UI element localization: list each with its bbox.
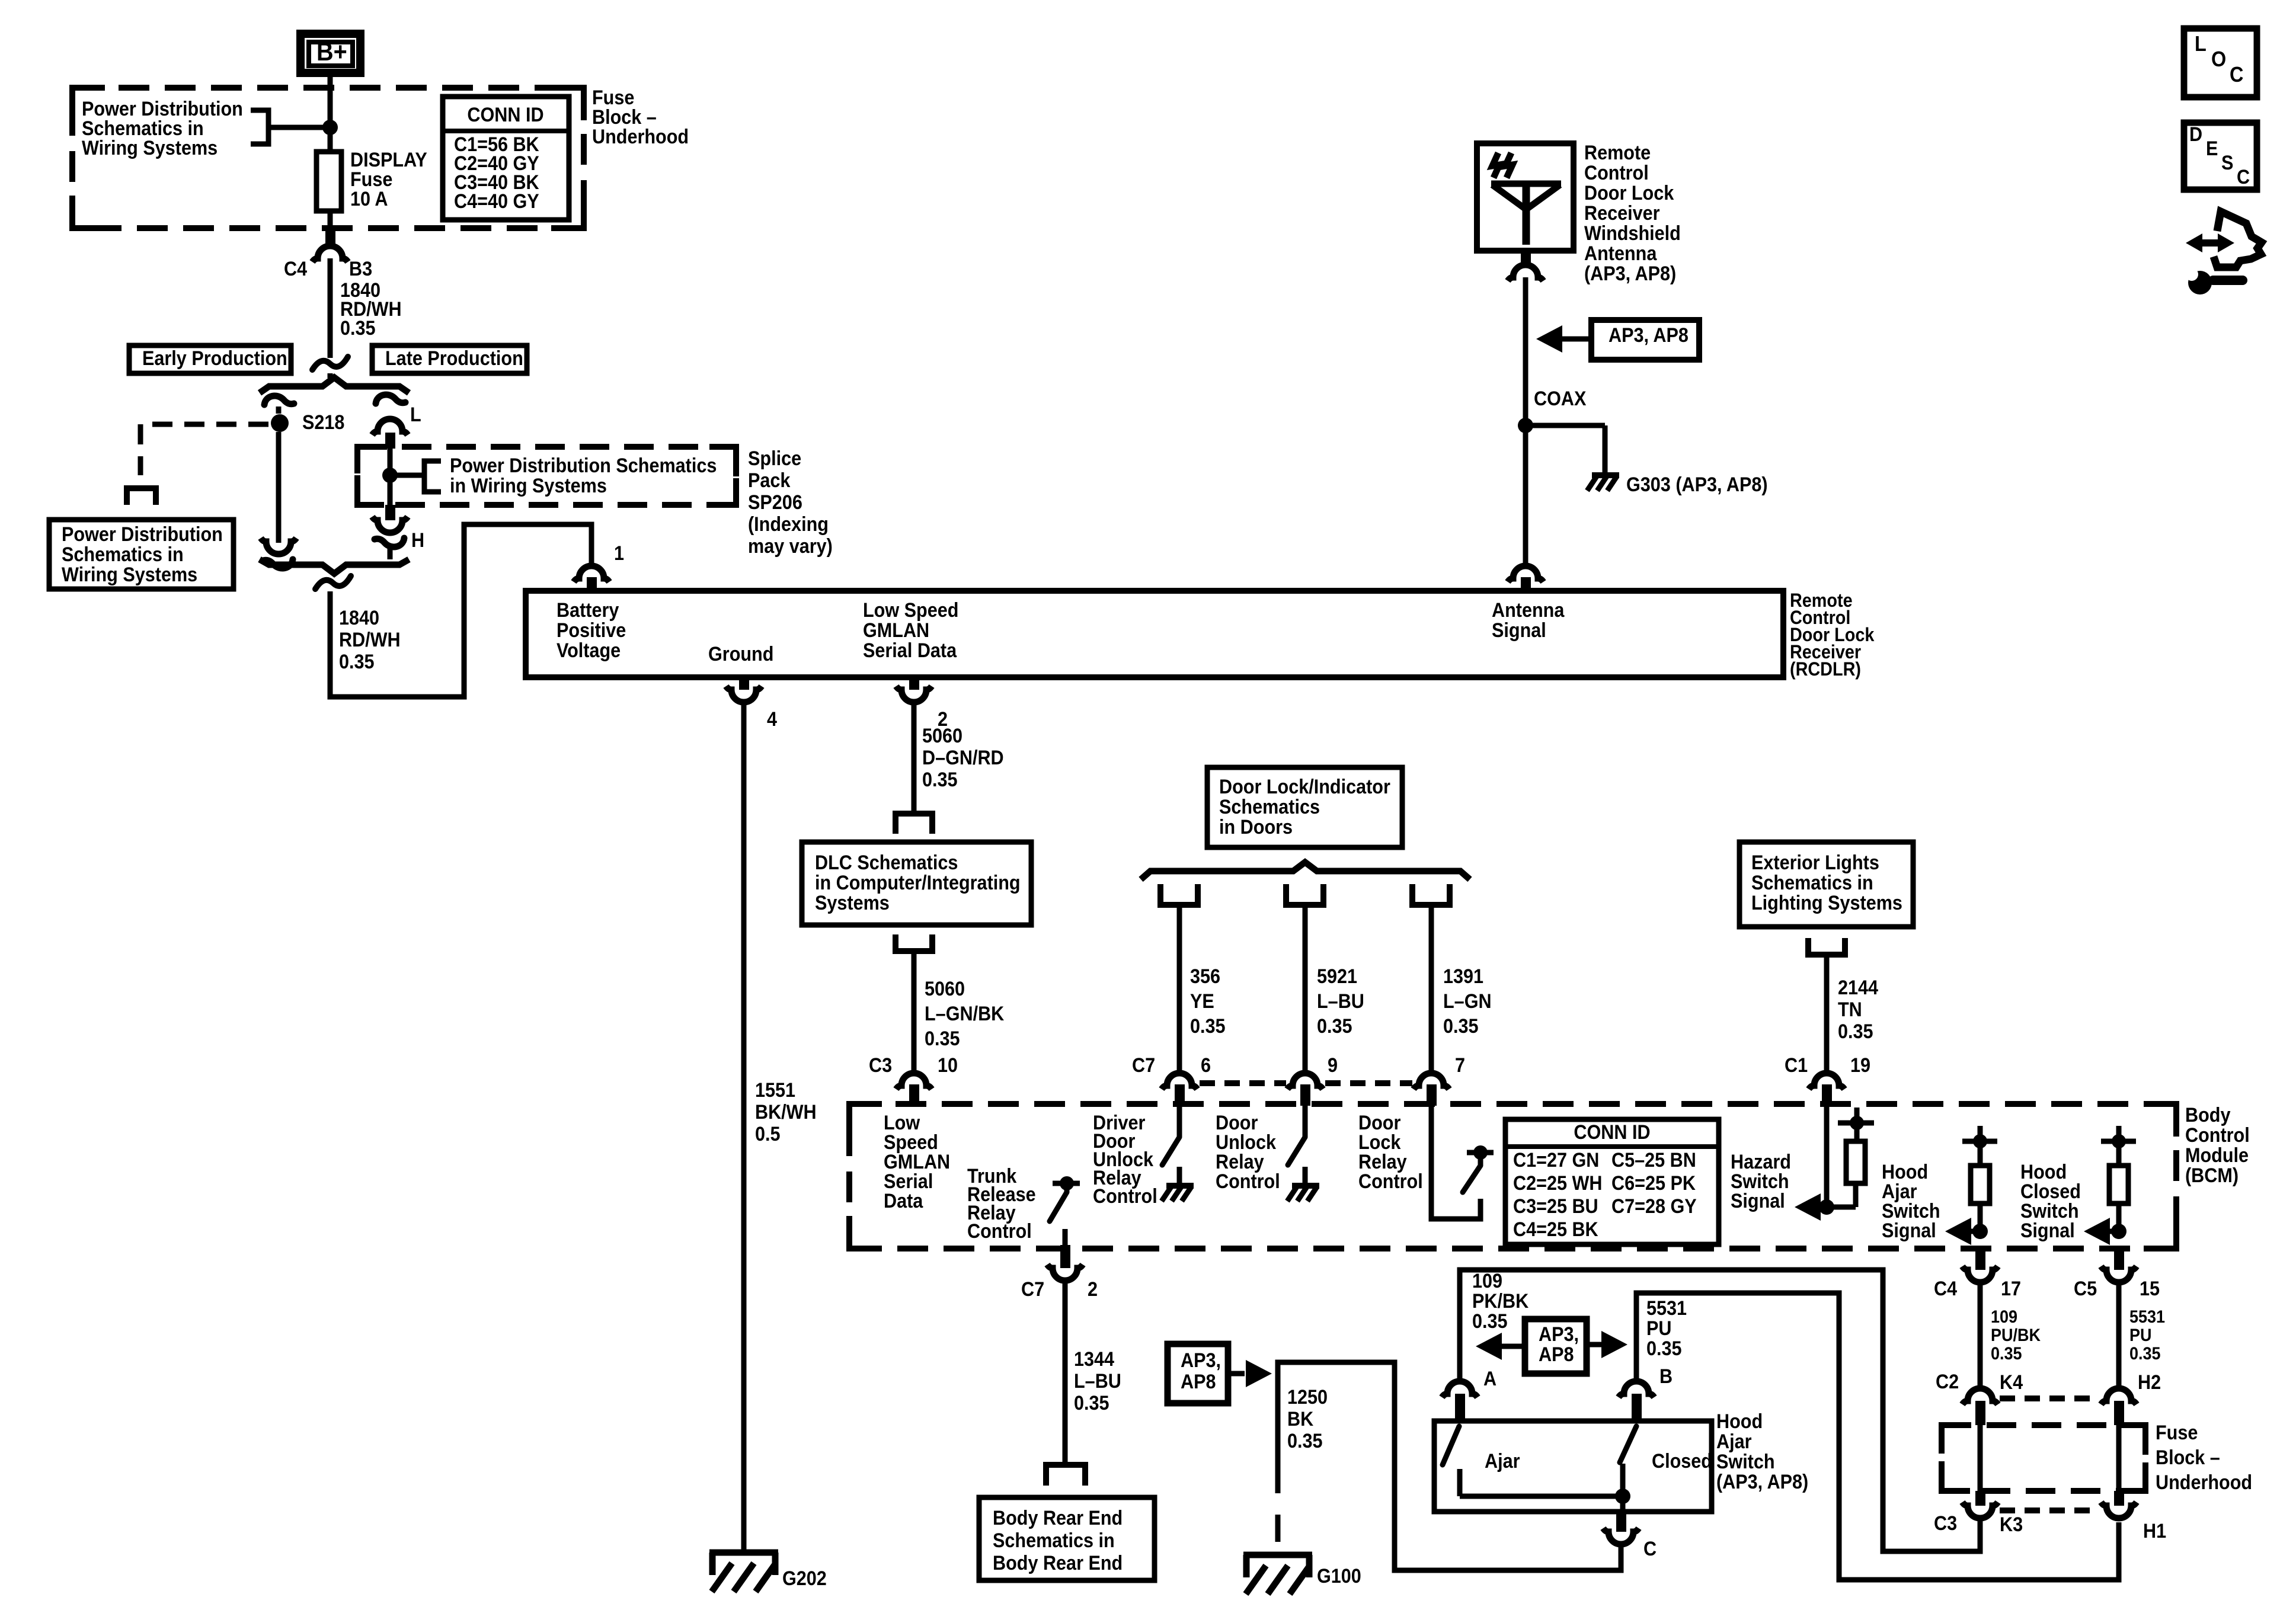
svg-text:C: C (2230, 63, 2243, 87)
wire through splice (388, 449, 393, 505)
svg-text:S218: S218 (302, 411, 344, 434)
wire branch 2 (1303, 905, 1308, 1074)
coax junction dot (1518, 418, 1533, 433)
label C3 (pin10) (869, 1054, 892, 1077)
label wire 1840 RD/WH 0.35 (upper) (340, 279, 402, 340)
svg-text:Early Production: Early Production (142, 347, 287, 370)
connector H1 (2101, 1491, 2137, 1518)
svg-text:(BCM): (BCM) (2185, 1164, 2239, 1187)
svg-text:in Computer/Integrating: in Computer/Integrating (815, 872, 1021, 894)
driver door unlock relay switch (1162, 1106, 1179, 1165)
label A (1483, 1368, 1496, 1390)
svg-text:0.35: 0.35 (1472, 1310, 1508, 1333)
box Late Production (372, 345, 527, 373)
label 17 (2001, 1278, 2021, 1300)
svg-text:Body: Body (2185, 1104, 2230, 1126)
label wire 5531 PU 0.35 (B) (1646, 1297, 1687, 1360)
svg-text:Underhood: Underhood (2156, 1471, 2252, 1494)
svg-text:Control: Control (1358, 1170, 1423, 1193)
svg-text:C5–25 BN: C5–25 BN (1611, 1149, 1696, 1172)
label C1 (pin19) (1785, 1054, 1808, 1077)
antenna box (1477, 143, 1574, 251)
connector pin 9 on BCM (1287, 1073, 1323, 1106)
svg-text:Control: Control (1584, 162, 1649, 184)
door unlock ground (1287, 1167, 1319, 1201)
connector C (1603, 1512, 1639, 1544)
break squiggle lower (315, 576, 351, 589)
svg-text:B: B (1659, 1365, 1673, 1388)
label K3 (2000, 1513, 2023, 1536)
label DISPLAY Fuse 10 A (350, 149, 427, 210)
connector C1/19 on BCM (1809, 1073, 1844, 1106)
svg-text:17: 17 (2001, 1278, 2021, 1300)
label wire 2144 TN 0.35 (1838, 977, 1878, 1043)
svg-text:C6=25 PK: C6=25 PK (1611, 1172, 1696, 1195)
label H2 (2138, 1371, 2161, 1394)
svg-text:Antenna: Antenna (1584, 242, 1657, 265)
hazard wire (1824, 1106, 1830, 1207)
svg-text:15: 15 (2140, 1278, 2160, 1300)
svg-text:10 A: 10 A (350, 188, 388, 210)
svg-text:AP3,: AP3, (1539, 1323, 1579, 1346)
svg-text:Exterior Lights: Exterior Lights (1751, 852, 1879, 874)
label Hood Ajar Switch Signal (1882, 1161, 1940, 1242)
svg-text:356: 356 (1190, 965, 1220, 988)
label wire 5531 PU 0.35 (H) (2129, 1307, 2165, 1364)
label pin 4 (767, 708, 777, 731)
connector C7/6 on BCM (1162, 1073, 1197, 1106)
svg-text:9: 9 (1328, 1054, 1338, 1077)
svg-text:BK: BK (1287, 1408, 1314, 1430)
label C4 (pin17) (1934, 1278, 1957, 1300)
hood ajar junction (1970, 1224, 1988, 1239)
bracket branch 1 (1160, 884, 1198, 905)
label pin 2 (938, 708, 948, 731)
svg-text:Systems: Systems (815, 892, 890, 914)
svg-text:Lighting Systems: Lighting Systems (1751, 892, 1902, 914)
svg-text:S: S (2221, 152, 2233, 174)
closed switch blade (1620, 1426, 1636, 1462)
svg-text:4: 4 (767, 708, 777, 731)
wire 1344 to body rear end (1063, 1283, 1068, 1464)
svg-text:C2=25 WH: C2=25 WH (1513, 1172, 1602, 1195)
connector C3/K3 (1962, 1491, 1998, 1518)
svg-text:Signal: Signal (1882, 1219, 1936, 1242)
svg-text:6: 6 (1201, 1054, 1211, 1077)
svg-text:D–GN/RD: D–GN/RD (922, 747, 1004, 769)
svg-text:G100: G100 (1317, 1565, 1361, 1587)
connector C4/B3 (312, 246, 348, 262)
svg-text:Wiring Systems: Wiring Systems (62, 564, 197, 586)
svg-text:1840: 1840 (339, 607, 379, 629)
connector pin 7 on BCM (1414, 1073, 1449, 1106)
svg-text:19: 19 (1850, 1054, 1870, 1077)
svg-text:0.35: 0.35 (1317, 1015, 1352, 1038)
svg-text:C: C (1643, 1538, 1657, 1560)
label Hood Ajar Switch (AP3, AP8) (1716, 1410, 1808, 1493)
brace door branches (1141, 862, 1470, 879)
label Power Distribution Schematics in Wiring Systems (splice) (450, 454, 717, 497)
hood closed pullup resistor (2101, 1126, 2136, 1231)
dashed wire 1250 to G100 (1275, 1466, 1281, 1554)
label C5 (pin15) (2074, 1278, 2097, 1300)
svg-text:1344: 1344 (1074, 1348, 1114, 1371)
coax wire down (1523, 277, 1528, 564)
svg-text:0.35: 0.35 (1287, 1430, 1323, 1452)
svg-text:PU: PU (1646, 1317, 1671, 1340)
svg-text:(AP3, AP8): (AP3, AP8) (1584, 263, 1676, 285)
svg-text:RD/WH: RD/WH (339, 629, 401, 651)
svg-text:0.35: 0.35 (1838, 1020, 1873, 1043)
svg-text:0.35: 0.35 (1991, 1344, 2022, 1364)
label Door Unlock Relay Control (1216, 1112, 1280, 1193)
break squiggle upper (312, 357, 348, 370)
arrow AP3AP8 to 1250 (1228, 1360, 1272, 1387)
box AP3 AP8 (g100) (1168, 1344, 1228, 1403)
ground G303 (1587, 475, 1619, 491)
svg-text:Signal: Signal (2020, 1219, 2075, 1242)
power symbol B+ (300, 34, 360, 73)
arrow AP3AP8 right (1587, 1331, 1627, 1358)
svg-text:PU: PU (2129, 1326, 2151, 1346)
svg-text:AP8: AP8 (1539, 1343, 1574, 1366)
svg-text:Body Rear End: Body Rear End (993, 1507, 1123, 1529)
label 1551 BK/WH 0.5 (755, 1079, 817, 1145)
svg-text:TN: TN (1838, 998, 1862, 1021)
label Ground (708, 643, 773, 665)
pin antenna connector (1508, 566, 1543, 591)
connector pair H (372, 517, 408, 547)
svg-text:(AP3, AP8): (AP3, AP8) (1716, 1471, 1808, 1493)
bracket below DLC box (896, 934, 932, 951)
trunk C7/2 connector (1047, 1245, 1083, 1281)
svg-text:Power Distribution Schematics: Power Distribution Schematics (450, 454, 717, 477)
fuse block underhood dashed box (bottom) (1942, 1425, 2145, 1491)
dotted link C7 pins (1200, 1080, 1412, 1086)
svg-text:AP3,: AP3, (1181, 1349, 1221, 1372)
svg-text:0.35: 0.35 (925, 1028, 960, 1050)
label Hazard Switch Signal (1731, 1151, 1791, 1212)
svg-text:5060: 5060 (925, 978, 965, 1000)
svg-text:Windshield: Windshield (1584, 222, 1681, 245)
wire pin2 to bracket (912, 705, 917, 813)
hood ajar switch box (1434, 1421, 1712, 1512)
label pin 1 (614, 542, 624, 565)
label Low Speed GMLAN Serial Data (BCM) (884, 1112, 950, 1212)
label 10 (938, 1054, 958, 1077)
label 15 (2140, 1278, 2160, 1300)
wire C4 to C2 (1978, 1285, 1983, 1387)
label wire 1840 RD/WH 0.35 (lower) (339, 607, 401, 673)
wire B3 down (328, 258, 333, 358)
svg-text:L: L (2195, 32, 2207, 56)
svg-text:0.35: 0.35 (1646, 1337, 1682, 1360)
svg-text:DLC Schematics: DLC Schematics (815, 852, 958, 874)
label Ajar (1485, 1450, 1520, 1473)
svg-text:E: E (2206, 137, 2218, 160)
svg-text:C5: C5 (2074, 1278, 2097, 1300)
box AP3 AP8 (antenna) (1591, 320, 1699, 360)
antenna box pin connector (1508, 251, 1543, 281)
svg-text:C7=28 GY: C7=28 GY (1611, 1195, 1697, 1218)
label Fuse Block - Underhood (bottom) (2156, 1422, 2252, 1494)
wire S218 down (276, 432, 282, 543)
svg-text:C7: C7 (1132, 1054, 1155, 1077)
body rear end box (979, 1497, 1155, 1580)
wire node to fuse (328, 127, 333, 152)
dashed wire S218 to left (140, 424, 268, 475)
svg-text:H2: H2 (2138, 1371, 2161, 1394)
bracket splice text (424, 461, 441, 492)
box Early Production (129, 345, 291, 373)
wire DLC to C3 pin (912, 951, 917, 1074)
svg-text:0.35: 0.35 (2129, 1344, 2161, 1364)
svg-text:5060: 5060 (922, 725, 962, 747)
label G202 (782, 1567, 827, 1590)
splice S218 (271, 414, 289, 432)
exterior lights box (1739, 842, 1913, 927)
fuse DISPLAY 10A (316, 152, 341, 211)
svg-text:Schematics in: Schematics in (993, 1529, 1115, 1552)
svg-text:7: 7 (1455, 1054, 1465, 1077)
label wire 5060 L-GN/BK 0.35 (925, 978, 1005, 1050)
svg-text:O: O (2211, 47, 2226, 71)
svg-text:C: C (2237, 166, 2250, 188)
connector C4/17 (1962, 1249, 1998, 1282)
label B3 (349, 258, 372, 280)
hazard arrow (1795, 1193, 1821, 1221)
svg-text:0.35: 0.35 (1443, 1015, 1479, 1038)
bracket above DLC box (896, 814, 932, 834)
wire C to 1250 BK (1278, 1362, 1621, 1570)
svg-text:10: 10 (938, 1054, 958, 1077)
svg-text:1250: 1250 (1287, 1386, 1328, 1409)
label 2 (trunk) (1088, 1278, 1098, 1301)
driver unlock ground (1162, 1167, 1194, 1201)
label C7 (pin6) (1132, 1054, 1155, 1077)
svg-text:0.35: 0.35 (1074, 1392, 1109, 1414)
label Door Lock Relay Control (1358, 1112, 1423, 1193)
label 19 (1850, 1054, 1870, 1077)
dotted link K3-H1 (2000, 1507, 2099, 1513)
svg-text:PU/BK: PU/BK (1991, 1326, 2041, 1346)
svg-text:0.35: 0.35 (922, 769, 958, 791)
svg-text:BK/WH: BK/WH (755, 1101, 817, 1124)
svg-text:Signal: Signal (1731, 1190, 1785, 1212)
fuse block underhood dashed box (top) (72, 88, 584, 228)
label 9 (1328, 1054, 1338, 1077)
label Driver Door Unlock Relay Control (1093, 1112, 1157, 1208)
svg-text:C1: C1 (1785, 1054, 1808, 1077)
svg-text:(Indexing: (Indexing (748, 513, 829, 536)
svg-text:Voltage: Voltage (557, 639, 621, 662)
svg-text:Ajar: Ajar (1485, 1450, 1520, 1473)
conn id table (fuse block) (443, 97, 569, 220)
svg-text:L–BU: L–BU (1074, 1370, 1121, 1393)
arrow AP3 AP8 to coax (1536, 325, 1593, 353)
wire H to merge brace (388, 545, 393, 559)
svg-text:109: 109 (1991, 1307, 2017, 1327)
svg-text:Block –: Block – (2156, 1446, 2220, 1469)
stub splice box to H (385, 505, 395, 520)
bracket to wiring systems text (251, 110, 268, 144)
label Closed (1652, 1450, 1712, 1473)
connector C2/K4 (1962, 1388, 1998, 1425)
svg-text:Control: Control (2185, 1124, 2250, 1147)
ajar switch blade (1443, 1426, 1459, 1465)
svg-text:Signal: Signal (1492, 619, 1546, 642)
splice junction dot (382, 468, 398, 483)
wire B+ to fuse (328, 77, 333, 127)
svg-text:L–BU: L–BU (1317, 990, 1364, 1013)
label Low Speed GMLAN Serial Data (863, 599, 958, 662)
label wire 1344 L-BU 0.35 (1074, 1348, 1121, 1414)
label C4 (284, 258, 307, 280)
hood closed junction (2109, 1224, 2126, 1239)
label wire 5060 D-GN/RD 0.35 (922, 725, 1004, 791)
label H (411, 529, 424, 552)
svg-text:C4: C4 (284, 258, 307, 280)
svg-text:C3: C3 (1934, 1512, 1957, 1535)
wire B up and over to H1 (1636, 1293, 2119, 1580)
svg-text:D: D (2189, 123, 2202, 146)
wire exterior lights to C1 (1824, 955, 1830, 1074)
door unlock relay switch (1288, 1106, 1305, 1165)
svg-text:C4=25 BK: C4=25 BK (1513, 1218, 1598, 1241)
svg-text:in Doors: in Doors (1219, 816, 1293, 838)
node junction on B+ wire (322, 120, 338, 135)
connector pair late branch L (372, 395, 408, 435)
svg-text:B3: B3 (349, 258, 372, 280)
svg-text:C2: C2 (1936, 1371, 1959, 1393)
label Battery Positive Voltage (557, 599, 626, 662)
hazard junction (1819, 1199, 1856, 1215)
svg-text:C3: C3 (869, 1054, 892, 1077)
svg-text:Control: Control (967, 1220, 1032, 1243)
label COAX (1534, 388, 1587, 410)
hazard pullup resistor (1838, 1108, 1874, 1207)
label H1 (2143, 1520, 2166, 1542)
wire branch 3 (1429, 905, 1434, 1074)
svg-text:Closed: Closed (1652, 1450, 1712, 1473)
label B (1659, 1365, 1673, 1388)
svg-text:109: 109 (1472, 1270, 1502, 1292)
svg-text:G202: G202 (782, 1567, 827, 1590)
label L (410, 404, 421, 426)
svg-text:L–GN/BK: L–GN/BK (925, 1003, 1005, 1025)
label wire 356 YE 0.35 (1190, 965, 1226, 1038)
svg-text:K4: K4 (2000, 1371, 2023, 1394)
svg-text:Module: Module (2185, 1144, 2249, 1167)
trunk release relay switch (1050, 1176, 1080, 1245)
svg-text:C7: C7 (1021, 1278, 1044, 1301)
dotted link C2-H2 (2000, 1395, 2099, 1401)
label K4 (2000, 1371, 2023, 1394)
icon arrow wrench (2185, 212, 2262, 295)
svg-text:Hood: Hood (1716, 1410, 1763, 1433)
connector C5/15 (2101, 1249, 2137, 1282)
svg-text:G303 (AP3, AP8): G303 (AP3, AP8) (1626, 473, 1768, 496)
ground G100 (1243, 1555, 1312, 1594)
svg-text:5921: 5921 (1317, 965, 1357, 988)
wire 1551 to G202 (741, 705, 747, 1553)
svg-text:(RCDLR): (RCDLR) (1790, 659, 1861, 680)
BCM dashed box (849, 1104, 2176, 1249)
svg-text:Pack: Pack (748, 469, 791, 492)
connector A (1442, 1381, 1478, 1421)
svg-text:Splice: Splice (748, 447, 801, 470)
DLC schematics box (802, 842, 1031, 925)
svg-text:Receiver: Receiver (1584, 202, 1660, 225)
svg-text:in Wiring Systems: in Wiring Systems (450, 475, 607, 497)
label C (1643, 1538, 1657, 1560)
label C7 (pin2) (1021, 1278, 1044, 1301)
label wire 109 PK/BK 0.35 (1472, 1270, 1529, 1333)
svg-text:C4: C4 (1934, 1278, 1957, 1300)
hood ajar arrow (1945, 1218, 1971, 1245)
svg-text:B+: B+ (316, 37, 347, 66)
svg-text:Data: Data (884, 1190, 923, 1212)
wire K4 to K3 through fuse block (1978, 1425, 1983, 1492)
connector C3/10 on BCM (896, 1073, 932, 1106)
arrow AP3AP8 left (1476, 1333, 1525, 1360)
svg-text:Positive: Positive (557, 619, 626, 642)
svg-text:Low Speed: Low Speed (863, 599, 958, 622)
wire H2 to H1 through fuse block (2116, 1425, 2122, 1492)
label wire 1391 L-GN 0.35 (1443, 965, 1492, 1038)
pin 1 connector (574, 566, 609, 591)
svg-text:Serial Data: Serial Data (863, 639, 957, 662)
label Body Control Module (BCM) (2185, 1104, 2250, 1187)
svg-text:5531: 5531 (1646, 1297, 1687, 1320)
door lock indicator box (1207, 767, 1402, 847)
svg-text:H1: H1 (2143, 1520, 2166, 1542)
svg-text:C3=25 BU: C3=25 BU (1513, 1195, 1598, 1218)
label Fuse Block - Underhood (top) (592, 87, 689, 148)
connector H2 (2101, 1388, 2137, 1425)
svg-text:5531: 5531 (2129, 1307, 2165, 1327)
wire fuse to connector C4 (325, 211, 335, 244)
stub L to splice box (385, 433, 395, 449)
svg-text:Ground: Ground (708, 643, 773, 665)
DESC box (2184, 123, 2257, 190)
wire squiggle to brace (328, 373, 333, 378)
svg-text:1: 1 (614, 542, 624, 565)
svg-text:Switch: Switch (1716, 1451, 1775, 1473)
bracket above body rear end box (1046, 1465, 1085, 1486)
svg-text:Schematics in: Schematics in (1751, 872, 1873, 894)
connector pair early branch bottom (261, 538, 296, 568)
bracket below exterior lights (1808, 938, 1845, 955)
wire bracket to node (268, 125, 330, 130)
svg-text:Antenna: Antenna (1492, 599, 1565, 622)
svg-text:K3: K3 (2000, 1513, 2023, 1536)
svg-text:YE: YE (1190, 990, 1214, 1013)
label G303 (AP3, AP8) (1626, 473, 1768, 496)
svg-text:2: 2 (1088, 1278, 1098, 1301)
connector B (1619, 1381, 1654, 1421)
svg-text:0.35: 0.35 (340, 317, 376, 340)
label Remote Control Door Lock Receiver Windshield Antenna (1584, 142, 1681, 285)
wire splice to bracket (390, 473, 423, 478)
box AP3 AP8 (hood middle) (1525, 1319, 1587, 1374)
hood ajar pullup resistor (1962, 1126, 1997, 1231)
svg-text:C1=27 GN: C1=27 GN (1513, 1149, 1599, 1172)
svg-text:Fuse: Fuse (2156, 1422, 2198, 1444)
wire A up and over to K3 (1460, 1270, 1980, 1551)
label 6 (1201, 1054, 1211, 1077)
wire branch 1 (1177, 905, 1182, 1074)
